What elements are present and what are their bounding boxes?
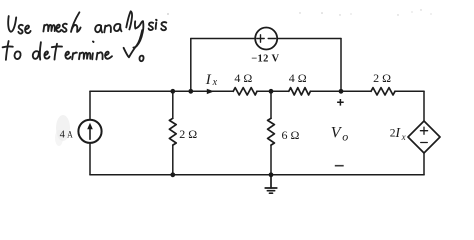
svg-text:A: A	[67, 129, 73, 140]
wire right rail lower	[423, 153, 425, 175]
word analysis: y descender	[133, 21, 143, 47]
svg-text:−12 V: −12 V	[251, 54, 279, 65]
wire left rail upper	[89, 91, 91, 119]
word determine: i dot	[92, 41, 95, 43]
word mesh: h	[71, 12, 81, 32]
resistor R2 4ohm squiggle	[289, 88, 311, 95]
ground bar 2	[267, 190, 274, 192]
wire between 4ohm and 2ohm	[310, 90, 371, 92]
node dot source loop left	[188, 89, 193, 94]
plus sign inside diamond	[420, 127, 427, 134]
word determine: d stem	[40, 42, 41, 59]
word analysis: i	[155, 23, 158, 29]
faint specks	[167, 9, 432, 15]
word determine: t	[55, 44, 58, 60]
ground bar 1	[265, 187, 277, 189]
word determine: i	[91, 53, 94, 59]
word determine: m	[79, 52, 90, 59]
dependent source U2 diamond 2Ix	[408, 121, 440, 153]
svg-text:2 Ω: 2 Ω	[179, 127, 197, 141]
resistor R5 6ohm vertical branch wire bottom	[270, 145, 272, 175]
svg-text:4: 4	[60, 130, 66, 141]
eraser smudge behind 4A	[56, 115, 70, 141]
resistor R4 2ohm vertical branch wire top	[172, 91, 174, 118]
wire voltage source loop top right	[277, 38, 341, 40]
plus sign inside voltage source	[257, 35, 264, 42]
word analysis: n	[104, 25, 111, 32]
word determine: n	[96, 52, 102, 59]
word to: o	[14, 51, 20, 59]
svg-text:o: o	[342, 130, 348, 144]
resistor R4 2ohm squiggle	[169, 118, 176, 145]
svg-text:I: I	[205, 72, 212, 88]
word Use: e	[25, 26, 31, 34]
arrowhead of current source	[87, 123, 93, 129]
word mesh: e	[56, 25, 61, 32]
word analysis: s	[161, 22, 166, 30]
word analysis: y	[135, 21, 143, 28]
svg-text:6 Ω: 6 Ω	[282, 128, 300, 142]
word analysis: a	[114, 24, 121, 31]
resistor R5 6ohm squiggle	[268, 118, 275, 145]
minus sign inside voltage source	[268, 38, 275, 40]
wire top rail left segment	[90, 90, 233, 92]
node dot source loop right	[339, 89, 344, 94]
wire left rail lower	[89, 143, 91, 175]
resistor R5 6ohm vertical branch wire top	[270, 91, 272, 118]
word determine: e	[65, 52, 70, 59]
wire top rail right segment	[395, 90, 424, 92]
resistor R4 2ohm vertical branch wire bottom	[172, 145, 174, 175]
word determine: r	[72, 53, 77, 60]
wire voltage source loop right vertical	[340, 39, 342, 92]
current source I1 4A circle	[78, 120, 101, 143]
word analysis: s	[149, 22, 154, 30]
word mesh: s	[63, 24, 67, 32]
resistor R1 4ohm squiggle	[233, 88, 257, 95]
node dot 6ohm top	[269, 89, 274, 94]
label minus of Vo	[335, 165, 344, 167]
svg-text:x: x	[212, 77, 218, 88]
word determine: t bar	[52, 45, 62, 48]
word to: t	[6, 41, 9, 60]
word mesh: m	[43, 25, 54, 32]
wire voltage source loop top left	[191, 38, 256, 40]
svg-text:x: x	[401, 132, 406, 142]
word Use: U	[8, 16, 16, 32]
word analysis: i dot	[155, 19, 158, 21]
word to: t bar	[3, 46, 13, 49]
wire between 4ohm resistors	[257, 90, 289, 92]
arrow inside current source	[89, 127, 91, 140]
wire bottom rail	[90, 174, 424, 176]
word Vo: V	[124, 30, 143, 57]
svg-text:4 Ω: 4 Ω	[289, 71, 307, 85]
word determine: d bowl	[33, 51, 39, 59]
wire voltage source loop left vertical	[190, 39, 192, 92]
handwriting: Use mesh analysis / to determine Vo	[3, 11, 167, 61]
ground bar 3	[270, 192, 273, 194]
node dot ground	[269, 172, 274, 177]
svg-text:2 Ω: 2 Ω	[373, 71, 391, 85]
node dot 2ohm top	[170, 89, 175, 94]
resistor R3 2ohm squiggle	[371, 88, 395, 95]
svg-text:4 Ω: 4 Ω	[234, 71, 252, 85]
minus sign inside diamond	[421, 142, 428, 144]
word analysis: l	[126, 11, 132, 29]
word determine: e	[44, 51, 49, 58]
word determine: e	[105, 52, 112, 59]
word analysis: a	[95, 25, 102, 32]
wire right rail upper	[423, 91, 425, 121]
label plus of Vo	[337, 99, 344, 106]
word Vo: o subscript	[139, 56, 143, 62]
voltage source V1 circle	[255, 28, 277, 50]
word Use: s	[18, 25, 22, 34]
arrowhead Ix on wire	[207, 89, 214, 94]
ground stem	[270, 175, 272, 188]
node dot 2ohm bottom	[170, 172, 175, 177]
